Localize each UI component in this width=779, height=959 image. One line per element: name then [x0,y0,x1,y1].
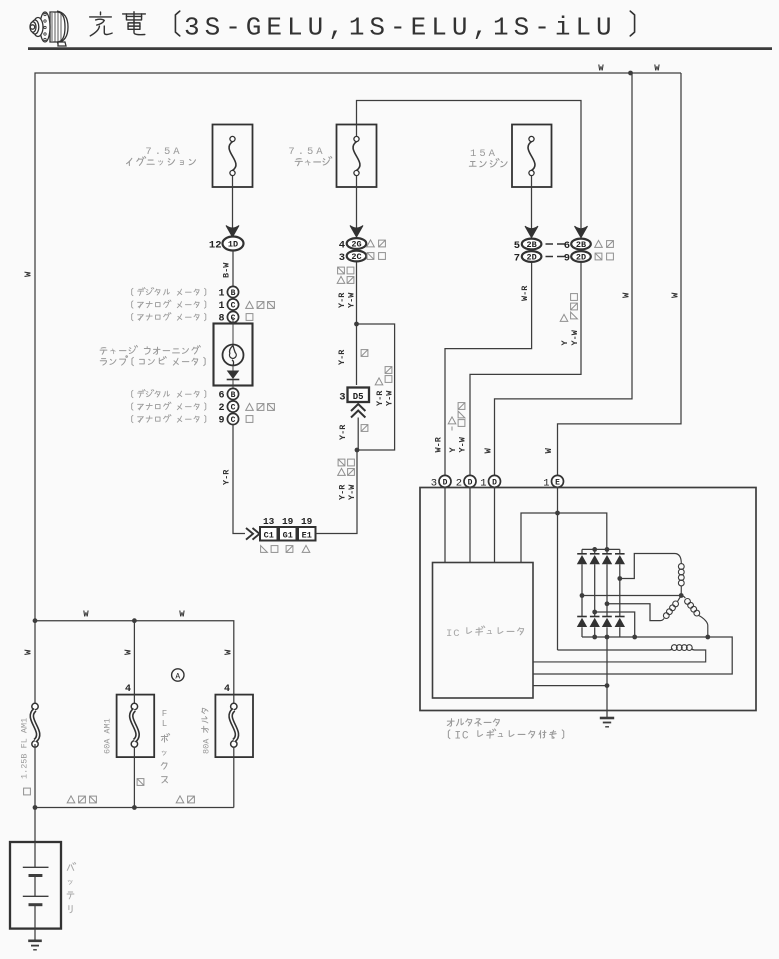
svg-text:7: 7 [514,253,520,265]
meter labels upper [132,288,206,296]
alternator box [420,488,756,711]
rotor field coil [533,649,706,662]
svg-text:2: 2 [218,403,224,414]
rectifier top bus [582,548,620,550]
phase1 wire to stator center [582,595,681,597]
svg-text:C: C [462,730,469,742]
double chevron below D5 [351,404,365,418]
svg-text:G1: G1 [283,531,293,541]
alternator icon [30,11,68,46]
fuse F1 7.5A ignition box [213,125,253,188]
connector 1D pin 12 [223,237,244,251]
svg-text:4: 4 [125,684,131,695]
wire W vertical right branch 2 [558,73,682,475]
svg-text:5: 5 [514,240,520,252]
svg-text:W: W [654,64,660,74]
svg-text:7.5A: 7.5A [288,146,325,158]
svg-text:3: 3 [339,392,345,404]
wire Y from 2D pin9 to terminal D2 [470,263,581,476]
wire 1D to meter connectors, label B-W [232,251,234,287]
svg-text:19: 19 [301,516,313,527]
svg-text:Y-W: Y-W [347,292,357,308]
svg-text:3S-GELU,1S-ELU,1S-iLU: 3S-GELU,1S-ELU,1S-iLU [184,13,617,43]
loop branch wire [357,324,395,450]
svg-text:E1: E1 [302,531,312,541]
connector C analog meter pin2 [227,401,238,412]
svg-text:F: F [162,709,167,719]
rectifier bottom bus [533,637,732,674]
meter labels lower [132,390,206,398]
wire bus to battery [34,808,36,843]
phase3 wire to stator coil2 [607,604,661,621]
stator coil 1 (vertical) [675,554,682,596]
markers above bottom bus [67,796,75,803]
svg-text:Y-W: Y-W [385,390,395,406]
wire sense line to rectifier top [521,513,607,563]
battery label [67,862,75,870]
arrow into 2G [350,226,363,238]
svg-text:L: L [162,719,167,729]
connector C analog meter pin9 [227,413,238,424]
svg-text:W: W [598,64,604,74]
markers under junction boxes [261,546,268,553]
svg-text:B: B [231,289,236,298]
svg-text:Y-R: Y-R [337,292,347,308]
ground wire [606,637,608,717]
terminal D pin3 [439,475,451,487]
svg-text:C: C [231,416,236,425]
svg-text:W: W [179,610,185,620]
wires terminals into IC regulator [445,488,495,563]
arrow into 2B right [575,226,588,238]
junction loop top [354,322,359,327]
connector B digital meter pin6 [227,388,238,399]
terminal E pin1 [552,475,564,487]
title 充電 [90,12,146,36]
svg-text:13: 13 [263,516,275,527]
svg-text:6: 6 [564,240,570,252]
markers right of 2B/2D [595,240,603,247]
svg-text:Y-R: Y-R [222,469,232,485]
svg-text:Y-R: Y-R [337,349,347,365]
markers lower meter row3 [246,416,253,423]
svg-text:W: W [484,448,494,454]
circle A meter [172,669,184,681]
svg-text:B-W: B-W [222,262,232,278]
svg-text:2D: 2D [576,253,586,263]
svg-text:15A: 15A [470,148,498,160]
FL box top bus [35,621,234,695]
svg-text:W-R: W-R [434,436,444,452]
fuse 60A AM1 box [133,621,135,695]
svg-text:Y: Y [560,340,570,346]
connector D5 pin3 [348,388,370,403]
label alternator [447,719,499,727]
svg-text:12: 12 [209,240,222,252]
svg-text:19: 19 [282,516,294,527]
svg-text:C: C [231,403,236,412]
connector B digital meter pin1 [227,286,238,297]
svg-text:1D: 1D [228,240,238,250]
connector C analog meter pin1 [227,299,238,310]
battery box [10,842,61,929]
svg-text:IC: IC [446,628,461,640]
svg-text:1: 1 [218,289,224,300]
svg-text:W: W [83,610,89,620]
wire W-R from 2D to terminal D3 [445,263,532,476]
battery cells [34,842,36,867]
svg-text:D: D [468,478,473,487]
terminal D pin2 [464,475,476,487]
svg-text:60A AM1: 60A AM1 [103,718,113,754]
wire fuse2 down [356,125,358,229]
arrow into 2B left [525,226,538,238]
svg-text:W: W [622,292,632,298]
svg-text:2D: 2D [526,253,536,263]
battery ground [28,939,42,942]
stator coil3 to bus junction [705,635,710,640]
svg-text:1.25B FL AM1: 1.25B FL AM1 [20,718,30,779]
wire E1 to loop bottom [316,450,358,534]
connector 2B pin5 [522,239,542,250]
arrow into 1D [226,226,239,238]
svg-text:Y-W: Y-W [570,329,580,345]
lamp label [100,345,200,354]
svg-text:Y: Y [448,447,458,453]
svg-text:2B: 2B [526,240,536,250]
svg-text:E: E [555,478,560,487]
markers upper meter row3 [246,314,253,321]
connector junction box C1 pin13 [260,527,278,541]
svg-text:W: W [124,649,134,655]
svg-text:W-R: W-R [520,285,530,301]
bottom bus [35,807,234,809]
wire D5 to loop bottom, label Y-R [357,418,359,451]
svg-text:2G: 2G [351,240,361,250]
svg-text:W: W [24,649,34,655]
wire IC regulator to ground [533,685,607,687]
wire fuse1 to connector 1D [232,176,234,228]
stator coil 2 (left diagonal) [661,596,682,621]
svg-text:C1: C1 [264,531,274,541]
diode in lamp box [227,371,240,380]
svg-text:1: 1 [218,301,224,312]
terminal D pin1 [489,475,501,487]
markers lower meter row2 [246,403,254,410]
junction top W [628,71,633,76]
wire 2C to loop top, labels Y-R Y-W [356,262,358,324]
charge warning lamp box [214,324,253,386]
svg-text:Y-R: Y-R [375,390,385,406]
svg-text:D5: D5 [353,392,364,402]
svg-text:Y-R: Y-R [338,484,348,500]
svg-text:9: 9 [564,253,570,265]
label ignition [127,156,196,165]
fuse 80A ALT box [215,695,253,758]
svg-text:Y-W: Y-W [458,436,468,452]
title rule [28,47,772,50]
svg-text:Y-R: Y-R [338,424,348,440]
wire loop main to D5, label Y-R [356,324,358,385]
wire W vertical right branch 1 [495,73,633,475]
fusible link 1.25B FL AM1 [34,621,36,704]
wire W: main feed top [35,73,681,621]
phase2 wire to bottom bus [595,612,635,637]
svg-text:W: W [24,271,34,277]
svg-text:Y-W: Y-W [347,484,357,500]
svg-text:A: A [175,672,180,681]
title text [175,11,179,36]
markers right of 2G/2C [367,240,375,247]
phase4 wire to stator coil1 [620,554,675,579]
connector 2C pin3 [347,251,367,262]
dashes between 2B pair [546,244,565,257]
svg-text:9: 9 [218,416,224,427]
connector junction box G1 pin19 [279,527,297,541]
connector C analog meter pin8 [227,311,238,322]
fuse F2 7.5A charge box [337,125,377,188]
svg-text:3: 3 [339,252,345,264]
junction loop bottom [355,448,360,453]
svg-text:W: W [224,649,234,655]
IC regulator box [433,563,534,699]
lamp bulb [223,345,244,366]
connector 2D pin9 [571,251,591,262]
wire E terminal down to field coil [557,488,559,651]
ground symbol alternator [600,717,614,720]
svg-text:I: I [454,730,461,742]
svg-text:6: 6 [218,391,224,402]
svg-text:C: C [231,301,236,310]
svg-text:W: W [671,292,681,298]
svg-text:D: D [443,478,448,487]
wire fuse3 down [531,176,533,229]
wire lamp column down, label Y-R [233,425,245,534]
svg-text:W: W [544,448,554,454]
stator center junction [679,593,684,598]
wire charge fuse top feed [357,101,582,229]
svg-text:D: D [492,478,497,487]
connector 2B pin6 [571,239,591,250]
rectifier diodes top row [577,553,587,555]
svg-text:4: 4 [339,240,345,252]
svg-text:2C: 2C [351,252,361,262]
inline connector arrows [246,528,260,540]
svg-text:2B: 2B [576,240,586,250]
svg-text:B: B [231,391,236,400]
wire through lamp box [232,317,234,345]
rectifier columns [581,549,583,637]
wire lamp to diode [232,366,234,372]
svg-text:80A: 80A [202,738,212,754]
connector 2G pin4 [347,238,367,249]
fuse F3 15A engine box [512,125,552,188]
stator coil 3 (right diagonal) [681,596,708,638]
rectifier diodes bottom row [577,616,587,618]
connector junction box E1 pin19 [298,527,316,541]
markers upper meter row2 [246,301,254,308]
svg-text:7.5A: 7.5A [145,146,182,158]
svg-text:4: 4 [224,684,230,695]
connector 2D pin7 [522,251,542,262]
